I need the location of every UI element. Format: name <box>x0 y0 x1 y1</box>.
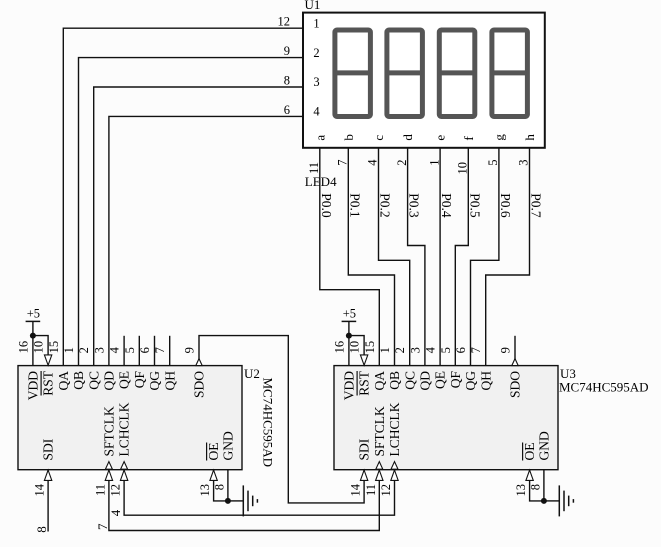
svg-text:SDO: SDO <box>192 371 207 398</box>
U2 RST input arrow <box>44 355 51 365</box>
svg-text:d: d <box>400 134 415 141</box>
svg-text:QB: QB <box>387 371 402 390</box>
svg-text:P0.2: P0.2 <box>378 193 393 217</box>
svg-text:4: 4 <box>313 105 320 119</box>
svg-text:6: 6 <box>138 347 152 353</box>
clock pin inner mark <box>105 462 112 470</box>
svg-text:GND: GND <box>537 431 552 460</box>
wire +5 to U2 VDD pin 16 <box>32 321 34 365</box>
wire net 12 (display pin 1 to U2) <box>63 28 303 365</box>
svg-text:15: 15 <box>47 341 61 354</box>
svg-text:6: 6 <box>454 347 468 353</box>
shift register U3 body <box>334 366 558 470</box>
wire segment e (display to U3 QE) <box>439 148 441 366</box>
ground symbol at U3 <box>544 500 559 502</box>
U2 QE unconnected stub <box>123 336 125 366</box>
svg-text:9: 9 <box>183 347 197 353</box>
U2 QG unconnected stub <box>154 336 156 366</box>
svg-text:3: 3 <box>92 347 106 353</box>
U2 QF unconnected stub <box>138 336 140 366</box>
svg-text:6: 6 <box>284 103 290 117</box>
svg-text:QH: QH <box>478 371 493 391</box>
svg-text:8: 8 <box>34 526 49 533</box>
svg-text:1: 1 <box>427 160 441 166</box>
svg-text:QC: QC <box>402 371 417 390</box>
svg-text:12: 12 <box>109 484 123 497</box>
svg-text:13: 13 <box>514 484 528 497</box>
svg-text:2: 2 <box>313 46 319 60</box>
svg-text:4: 4 <box>108 346 122 353</box>
svg-text:1: 1 <box>62 347 76 353</box>
U3 OE input arrow <box>526 470 533 480</box>
wire U3 OE pin 13 to ground <box>530 470 544 501</box>
wire segment b (display to U3 QB) <box>348 148 394 366</box>
svg-text:f: f <box>461 136 476 141</box>
U3 SDO unconnected stub <box>514 336 516 366</box>
svg-text:MC74HC595AD: MC74HC595AD <box>559 380 649 395</box>
svg-text:7: 7 <box>469 347 483 353</box>
svg-text:c: c <box>371 135 386 141</box>
ground symbol at U2 <box>228 500 243 502</box>
wire U2 OE pin 13 to ground <box>214 470 228 501</box>
svg-text:8: 8 <box>528 484 542 490</box>
junction at U2 VDD <box>30 333 36 339</box>
svg-text:8: 8 <box>212 484 226 490</box>
svg-text:4: 4 <box>424 346 438 353</box>
svg-text:QB: QB <box>71 371 86 390</box>
svg-text:LCHCLK: LCHCLK <box>117 402 132 456</box>
clock pin inner mark <box>121 462 128 470</box>
svg-text:1: 1 <box>378 347 392 353</box>
shift register U2 body <box>18 366 242 470</box>
svg-text:LCHCLK: LCHCLK <box>387 402 402 456</box>
wire segment a (display to U3 QA) <box>320 148 380 366</box>
svg-text:+5: +5 <box>27 306 40 320</box>
svg-text:16: 16 <box>16 341 30 354</box>
wire segment g (display to U3 QG) <box>471 148 499 366</box>
svg-text:2: 2 <box>395 160 409 166</box>
svg-text:QD: QD <box>418 371 433 391</box>
svg-text:5: 5 <box>123 347 137 353</box>
svg-text:2: 2 <box>77 347 91 353</box>
svg-text:2: 2 <box>393 347 407 353</box>
clock pin input arrow <box>105 470 112 480</box>
svg-text:QG: QG <box>147 371 162 391</box>
svg-text:P0.7: P0.7 <box>529 193 544 218</box>
svg-text:10: 10 <box>32 341 46 354</box>
digit 3 outline <box>439 30 475 117</box>
svg-text:3: 3 <box>408 347 422 353</box>
wire segment c (display to U3 QC) <box>379 148 410 366</box>
svg-text:QF: QF <box>448 371 463 389</box>
svg-text:LED4: LED4 <box>305 174 337 189</box>
svg-text:QF: QF <box>132 371 147 389</box>
U2 SDO output arrow <box>196 359 202 366</box>
wire +5 to U3 VDD pin 16 <box>348 321 350 365</box>
svg-text:3: 3 <box>313 75 319 89</box>
svg-text:U2: U2 <box>244 366 260 381</box>
U3 SDI input arrow <box>360 470 367 480</box>
clock pin input arrow <box>391 470 398 480</box>
junction at U2 ground <box>225 498 231 504</box>
svg-text:7: 7 <box>95 523 110 530</box>
svg-text:SDO: SDO <box>508 371 523 398</box>
svg-text:QE: QE <box>433 371 448 389</box>
svg-text:11: 11 <box>93 484 107 496</box>
svg-text:12: 12 <box>278 15 291 29</box>
svg-text:RST: RST <box>41 370 56 396</box>
U2 QH unconnected stub <box>169 336 171 366</box>
svg-text:SDI: SDI <box>41 438 56 460</box>
svg-text:P0.3: P0.3 <box>407 193 422 218</box>
svg-text:QA: QA <box>56 371 71 391</box>
wire net 6 (display pin 4 to U2) <box>109 116 303 365</box>
svg-text:VDD: VDD <box>342 371 357 400</box>
svg-text:9: 9 <box>499 347 513 353</box>
wire net 8 (display pin 3 to U2) <box>94 87 303 366</box>
svg-text:+5: +5 <box>343 306 356 320</box>
svg-text:g: g <box>492 134 507 141</box>
digit 2 outline <box>387 30 423 117</box>
svg-text:7: 7 <box>336 160 350 166</box>
clock pin input arrow <box>120 470 127 480</box>
svg-text:QD: QD <box>102 371 117 391</box>
digit 4 outline <box>492 30 528 117</box>
svg-text:QE: QE <box>117 371 132 389</box>
wire +5 branch to U2 RST pin 10 <box>33 336 48 357</box>
svg-text:7: 7 <box>153 347 167 353</box>
svg-text:P0.0: P0.0 <box>319 193 334 218</box>
digit 2 middle segment <box>388 70 422 75</box>
svg-text:VDD: VDD <box>26 371 41 400</box>
svg-text:11: 11 <box>364 484 378 496</box>
svg-text:e: e <box>433 135 448 141</box>
wire U2 GND pin 8 to ground <box>227 470 229 501</box>
svg-text:9: 9 <box>284 44 290 58</box>
svg-text:QH: QH <box>162 371 177 391</box>
svg-text:OE: OE <box>206 443 221 461</box>
wire SFTCLK net 7 (U2 to U3) <box>109 470 379 531</box>
svg-text:U1: U1 <box>305 0 321 12</box>
svg-text:SFTCLK: SFTCLK <box>372 406 387 457</box>
svg-text:11: 11 <box>307 162 321 174</box>
wire net 9 (display pin 2 to U2) <box>79 58 304 366</box>
svg-text:4: 4 <box>108 509 123 516</box>
digit 1 middle segment <box>336 70 370 75</box>
digit 3 middle segment <box>440 70 474 75</box>
svg-text:P0.5: P0.5 <box>467 193 482 218</box>
wire +5 branch to U3 RST pin 10 <box>349 336 364 357</box>
svg-text:SDI: SDI <box>357 438 372 460</box>
svg-text:QC: QC <box>86 371 101 390</box>
wire segment d (display to U3 QD) <box>408 148 425 366</box>
svg-text:14: 14 <box>349 483 363 496</box>
wire U2 SDO to U3 SDI <box>199 336 364 503</box>
svg-text:15: 15 <box>363 341 377 354</box>
svg-text:a: a <box>312 135 327 141</box>
svg-text:SFTCLK: SFTCLK <box>102 406 117 457</box>
svg-text:QA: QA <box>372 371 387 391</box>
svg-text:P0.1: P0.1 <box>347 193 362 217</box>
U3 SDO output arrow <box>512 359 518 366</box>
wire segment f (display to U3 QF) <box>455 148 468 366</box>
svg-text:14: 14 <box>33 483 47 496</box>
wire LCHCLK net 4 (U2 to U3) <box>124 470 394 516</box>
clock pin inner mark <box>376 462 383 470</box>
svg-text:10: 10 <box>348 341 362 354</box>
svg-text:16: 16 <box>332 341 346 354</box>
junction at U3 VDD <box>346 333 352 339</box>
svg-text:5: 5 <box>439 347 453 353</box>
svg-text:MC74HC595AD: MC74HC595AD <box>261 378 276 468</box>
svg-text:8: 8 <box>284 73 290 87</box>
svg-text:10: 10 <box>456 162 470 175</box>
svg-text:RST: RST <box>357 370 372 396</box>
wire segment h (display to U3 QH) <box>486 148 530 366</box>
junction at U3 ground <box>541 498 547 504</box>
svg-text:12: 12 <box>379 484 393 497</box>
svg-text:1: 1 <box>313 16 319 30</box>
wire U3 GND pin 8 to ground <box>543 470 545 501</box>
digit 4 middle segment <box>493 70 527 75</box>
U2 OE input arrow <box>210 470 217 480</box>
svg-text:13: 13 <box>198 484 212 497</box>
svg-text:b: b <box>341 134 356 141</box>
7-segment display U1 body <box>303 13 545 148</box>
svg-text:OE: OE <box>522 443 537 461</box>
svg-text:P0.4: P0.4 <box>439 193 454 218</box>
svg-text:5: 5 <box>486 160 500 166</box>
svg-text:P0.6: P0.6 <box>498 193 513 218</box>
wire U2 SDI net 8 <box>47 470 49 532</box>
U3 RST input arrow <box>360 355 367 365</box>
svg-text:QG: QG <box>463 371 478 391</box>
clock pin inner mark <box>391 462 398 470</box>
svg-text:3: 3 <box>517 160 531 166</box>
svg-text:GND: GND <box>221 431 236 460</box>
svg-text:h: h <box>522 134 537 141</box>
svg-text:4: 4 <box>366 159 380 166</box>
clock pin input arrow <box>376 470 383 480</box>
U2 SDI input arrow <box>44 470 51 480</box>
digit 1 outline <box>335 30 371 117</box>
